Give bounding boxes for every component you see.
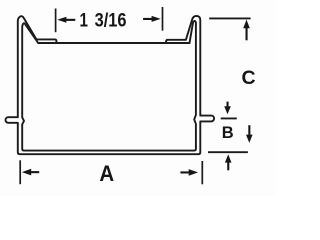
channel outer profile (left lip, left wall with tab, bottom, right wall with tab, right lip) xyxy=(5,16,214,154)
dimension A right arrow xyxy=(180,169,198,176)
svg-text:A: A xyxy=(99,162,114,187)
dimension B top arrow (down) xyxy=(224,102,231,115)
top edge line of body xyxy=(38,42,189,44)
channel inner profile (inner sheet surface) xyxy=(22,21,196,151)
dimension A left extension bar xyxy=(19,160,21,184)
dimension A right extension bar xyxy=(201,161,203,184)
svg-text:C: C xyxy=(242,67,256,89)
dimension B bottom arrow (up) xyxy=(225,154,232,170)
dimension 1 3/16 left arrow xyxy=(57,17,75,23)
dimension 1 3/16 right arrow xyxy=(143,16,161,22)
dimension 1 3/16 left extension bar xyxy=(55,9,57,33)
svg-text:3/16: 3/16 xyxy=(95,9,127,31)
dimension B top extension line xyxy=(221,117,237,119)
svg-text:B: B xyxy=(222,124,234,142)
dimension C top arrow (up) xyxy=(243,20,250,41)
svg-text:1: 1 xyxy=(80,9,89,31)
dimension A left arrow xyxy=(22,169,39,176)
shared bottom extension line (B/C) xyxy=(208,151,248,153)
dimension 1 3/16 right extension bar xyxy=(162,7,164,31)
dimension C bottom arrow (down) xyxy=(246,125,253,143)
dimension C top extension line xyxy=(209,17,250,19)
